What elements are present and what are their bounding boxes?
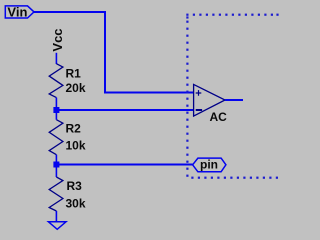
svg-text:R3: R3 bbox=[67, 179, 83, 193]
wire junction B to pin flag bbox=[56, 164, 192, 166]
wire Vin to op-amp + input bbox=[34, 12, 193, 93]
wire Vcc to R1 bbox=[55, 53, 57, 64]
wire R1 to junction A bbox=[55, 98, 57, 110]
junction B bbox=[53, 162, 59, 168]
op-amp + input marker bbox=[196, 90, 202, 96]
svg-text:Vin: Vin bbox=[7, 4, 27, 19]
dotted selection box top edge bbox=[186, 14, 278, 16]
svg-text:pin: pin bbox=[200, 158, 218, 172]
wire R2 to junction B bbox=[55, 155, 57, 165]
svg-text:30k: 30k bbox=[66, 197, 86, 211]
wire junction A to op-amp - input bbox=[56, 109, 193, 111]
wire op-amp output bbox=[225, 99, 243, 101]
node Vin flag bbox=[5, 6, 34, 18]
ground bbox=[48, 222, 66, 230]
svg-text:R1: R1 bbox=[66, 67, 82, 81]
resistor R1 bbox=[49, 64, 63, 98]
dotted selection box left edge bbox=[186, 16, 188, 176]
resistor R3 bbox=[49, 177, 63, 211]
wire R3 to ground bbox=[55, 211, 57, 222]
svg-text:20k: 20k bbox=[66, 81, 86, 95]
op-amp U1 triangle bbox=[194, 84, 225, 116]
junction A bbox=[53, 107, 59, 113]
node pin flag bbox=[193, 158, 226, 172]
op-amp - input marker bbox=[196, 109, 202, 111]
wire junction A to R2 bbox=[55, 110, 57, 120]
resistor R2 bbox=[49, 120, 63, 155]
dotted selection box bottom edge bbox=[191, 177, 278, 179]
svg-text:Vcc: Vcc bbox=[50, 28, 65, 51]
svg-text:R2: R2 bbox=[66, 121, 82, 135]
wire junction B to R3 bbox=[55, 165, 57, 178]
svg-text:AC: AC bbox=[210, 110, 228, 124]
svg-text:10k: 10k bbox=[66, 139, 86, 153]
